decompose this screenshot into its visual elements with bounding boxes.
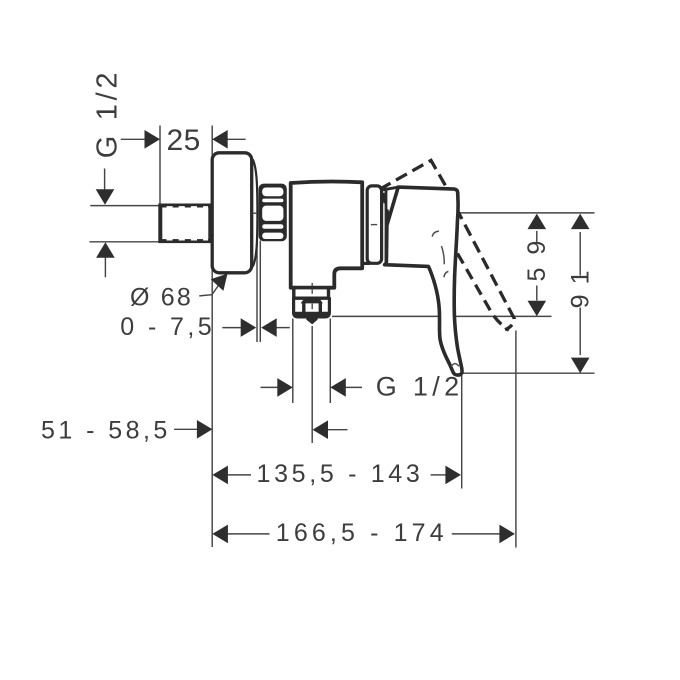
svg-text:0 - 7,5: 0 - 7,5 — [120, 313, 215, 341]
svg-text:Ø 68: Ø 68 — [130, 284, 194, 312]
svg-text:51 - 58,5: 51 - 58,5 — [41, 416, 171, 444]
svg-text:166,5 - 174: 166,5 - 174 — [276, 519, 447, 547]
svg-text:25: 25 — [167, 124, 204, 157]
svg-text:G 1/2: G 1/2 — [376, 372, 463, 402]
svg-text:G 1/2: G 1/2 — [92, 69, 124, 158]
svg-text:135,5 - 143: 135,5 - 143 — [257, 460, 424, 488]
